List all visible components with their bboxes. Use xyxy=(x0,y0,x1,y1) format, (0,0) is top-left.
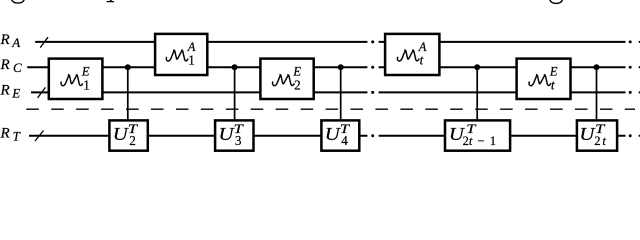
gate M_t^E xyxy=(517,59,571,99)
gate U_4^T xyxy=(321,120,359,150)
wire R_E segment right xyxy=(379,91,626,93)
register label R_E xyxy=(0,82,20,100)
register label R_A xyxy=(0,32,20,50)
wire R_C segment right xyxy=(379,66,626,68)
wire R_A continuation dot right xyxy=(629,40,632,43)
wire R_T segment right xyxy=(379,135,626,137)
svg-text:2t: 2t xyxy=(594,134,606,148)
dashed separator line xyxy=(26,108,635,110)
svg-text:E: E xyxy=(549,64,558,78)
wire R_C continuation dot middle xyxy=(371,66,374,69)
bus slash on R_E xyxy=(38,87,46,97)
svg-text:C: C xyxy=(13,60,22,75)
wire R_A segment right xyxy=(379,41,626,43)
gate U_2^T xyxy=(109,120,147,150)
control vertical wire to U2t xyxy=(596,67,598,121)
wire R_E segment left xyxy=(31,91,367,93)
svg-text:R: R xyxy=(0,57,10,73)
gate M_2^E xyxy=(260,59,313,99)
wire R_T edge stub xyxy=(639,135,640,137)
control vertical wire to U2t-1 xyxy=(476,67,478,121)
svg-text:R: R xyxy=(0,126,10,142)
gate U_2t^T xyxy=(577,120,617,150)
wire R_C segment left xyxy=(27,66,367,68)
svg-text:t: t xyxy=(551,77,555,92)
gate M_t^A xyxy=(385,34,439,75)
svg-text:R: R xyxy=(0,32,10,48)
gate U_3^T xyxy=(215,120,253,150)
register label R_T xyxy=(0,126,21,144)
svg-text:t: t xyxy=(420,53,424,68)
svg-text:E: E xyxy=(81,64,90,78)
wire R_E continuation dot right xyxy=(629,91,632,94)
control dot on R_C for U3 xyxy=(232,64,238,70)
svg-text:U: U xyxy=(325,124,341,144)
svg-text:1: 1 xyxy=(188,53,195,68)
wire R_C edge stub xyxy=(639,66,640,68)
bus slash on R_A xyxy=(40,37,48,47)
wire R_T continuation dot middle xyxy=(371,134,374,137)
control dot on R_C for U2t-1 xyxy=(474,64,480,70)
control vertical wire to U4 xyxy=(340,67,342,121)
control vertical wire to U3 xyxy=(234,67,236,121)
wire R_A edge stub xyxy=(639,41,640,43)
wire R_E edge stub xyxy=(639,91,640,93)
svg-text:2: 2 xyxy=(129,133,136,148)
control dot on R_C for U2 xyxy=(125,64,131,70)
control vertical wire to U2 xyxy=(127,67,129,121)
cropped caption fragment: serif foot xyxy=(107,0,115,2)
wire R_A continuation dot middle xyxy=(371,40,374,43)
svg-text:T: T xyxy=(13,129,21,144)
svg-text:E: E xyxy=(11,85,20,100)
bus slash on R_T xyxy=(35,131,44,142)
svg-text:U: U xyxy=(579,124,595,144)
svg-text:2t−1: 2t−1 xyxy=(463,134,496,148)
cropped caption fragment: arc left xyxy=(11,0,24,3)
wire R_A segment left xyxy=(35,41,367,43)
gate M_1^A xyxy=(155,34,207,75)
svg-text:U: U xyxy=(113,124,129,144)
svg-text:E: E xyxy=(292,64,301,78)
svg-text:A: A xyxy=(11,35,20,50)
svg-text:2: 2 xyxy=(294,77,301,92)
control dot on R_C for U2t xyxy=(594,64,600,70)
wire R_T segment left xyxy=(29,135,367,137)
control dot on R_C for U4 xyxy=(338,64,344,70)
wire R_T continuation dot right xyxy=(629,134,632,137)
wire R_C continuation dot right xyxy=(629,66,632,69)
svg-text:U: U xyxy=(219,124,235,144)
gate U_2t-1^T xyxy=(445,120,510,150)
svg-text:3: 3 xyxy=(235,133,242,148)
svg-text:R: R xyxy=(0,82,10,98)
gate M_1^E xyxy=(49,59,103,99)
svg-text:1: 1 xyxy=(83,77,90,92)
cropped caption fragment: arc right xyxy=(550,0,563,3)
register label R_C xyxy=(0,57,22,75)
wire R_E continuation dot middle xyxy=(371,91,374,94)
svg-text:4: 4 xyxy=(341,133,348,148)
